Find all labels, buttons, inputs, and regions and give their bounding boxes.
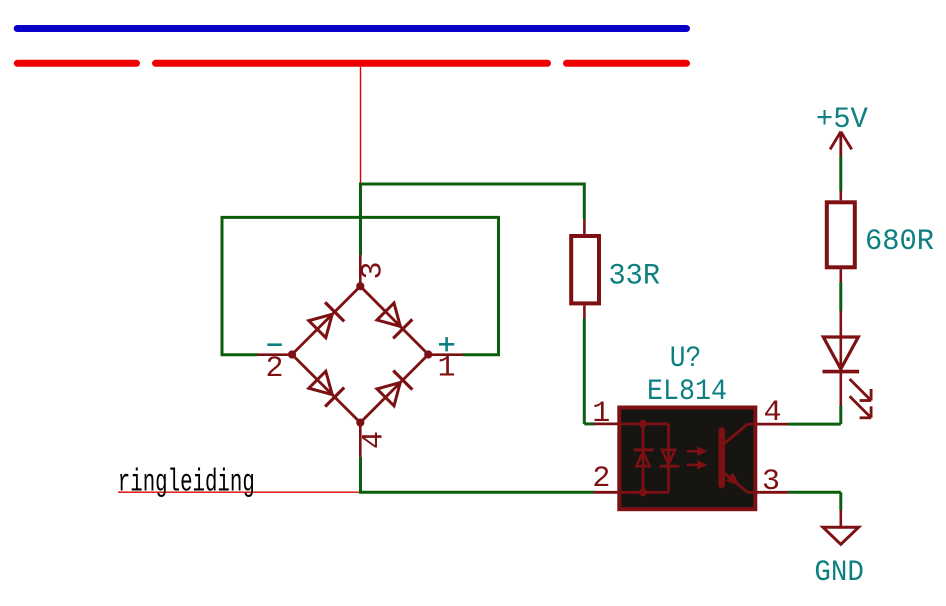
svg-text:3: 3 (357, 261, 391, 279)
svg-text:4: 4 (764, 396, 782, 430)
svg-text:1: 1 (438, 352, 456, 386)
svg-text:2: 2 (592, 462, 610, 496)
svg-text:U?: U? (670, 342, 702, 376)
svg-text:4: 4 (358, 431, 392, 449)
svg-text:2: 2 (266, 352, 284, 386)
svg-text:1: 1 (592, 397, 610, 431)
svg-text:ringleiding: ringleiding (118, 466, 255, 501)
svg-text:33R: 33R (609, 260, 661, 294)
svg-text:680R: 680R (865, 225, 934, 259)
svg-text:GND: GND (814, 556, 864, 590)
svg-text:+5V: +5V (816, 103, 868, 137)
svg-text:EL814: EL814 (647, 375, 727, 409)
svg-text:3: 3 (762, 465, 780, 499)
